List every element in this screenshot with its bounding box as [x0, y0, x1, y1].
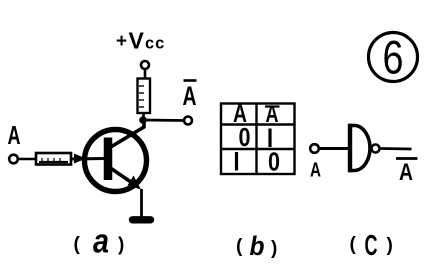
- svg-text:): ): [118, 235, 124, 256]
- svg-text:+: +: [116, 31, 127, 52]
- node Ā label (gate output): [396, 159, 418, 187]
- svg-text:V: V: [129, 28, 145, 54]
- terminal input A: [9, 155, 18, 164]
- wire R1 to collector node: [142, 113, 145, 120]
- wire emitter to ground: [140, 189, 143, 217]
- svg-text:A: A: [266, 101, 279, 128]
- node Ā label (circuit output): [183, 81, 197, 112]
- svg-text:A: A: [310, 159, 321, 181]
- figure number 6: [369, 31, 418, 84]
- svg-text:(: (: [236, 236, 243, 257]
- inverter bubble: [372, 145, 380, 153]
- svg-text:cc: cc: [145, 35, 165, 53]
- wire R2 to base with arrow: [71, 154, 104, 164]
- svg-text:A: A: [183, 81, 197, 111]
- wire gate input: [319, 147, 350, 150]
- wire collector node to output terminal: [143, 119, 184, 122]
- junction collector node: [139, 116, 147, 124]
- inverter U1 body: [349, 124, 370, 173]
- wire input terminal to resistor R2: [18, 158, 36, 161]
- terminal output Ā: [184, 117, 192, 125]
- resistor R2 (base): [36, 153, 71, 165]
- svg-text:(: (: [74, 234, 81, 255]
- svg-text:): ): [271, 238, 277, 259]
- terminal +Vcc: [141, 61, 149, 69]
- caption (a): [74, 223, 125, 261]
- svg-text:C: C: [365, 230, 378, 262]
- svg-text:0: 0: [268, 147, 280, 177]
- svg-text:b: b: [250, 231, 265, 261]
- wire gate output: [380, 147, 412, 150]
- svg-text:a: a: [93, 223, 109, 261]
- wire Vcc terminal to resistor R1: [144, 69, 147, 79]
- svg-text:): ): [387, 235, 393, 256]
- caption (b): [236, 231, 277, 261]
- node +Vcc label: [116, 28, 165, 54]
- truth table (b) grid: [221, 104, 295, 175]
- truth table cell row1 Ā=1: [268, 129, 271, 148]
- svg-text:A: A: [399, 159, 413, 186]
- truth table header Ā: [265, 101, 280, 128]
- svg-text:6: 6: [383, 31, 404, 84]
- svg-text:0: 0: [239, 122, 251, 152]
- ground: [133, 216, 151, 223]
- resistor R1 (collector load): [138, 79, 151, 114]
- truth table cell row2 A=1: [235, 152, 238, 171]
- terminal input A (gate): [310, 144, 319, 153]
- svg-text:A: A: [8, 120, 21, 150]
- transistor Q1: [85, 119, 147, 192]
- svg-text:(: (: [350, 234, 357, 255]
- caption (c): [350, 230, 393, 262]
